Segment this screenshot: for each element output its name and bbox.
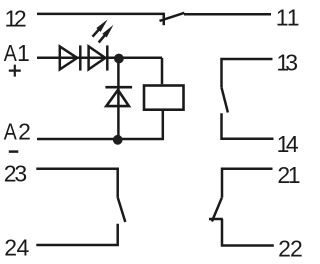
svg-text:3: 3: [14, 160, 27, 186]
wire 21: [222, 169, 273, 198]
label 12: [5, 5, 27, 31]
diode D1: [60, 46, 77, 69]
junction node coil+: [114, 54, 124, 64]
svg-text:3: 3: [285, 49, 298, 75]
label 13: [276, 49, 298, 75]
wire coil top vertical: [161, 58, 164, 84]
wire 14: [222, 113, 274, 139]
LED arrow 2: [97, 23, 116, 44]
label A2: [4, 119, 31, 145]
label 11: [276, 4, 300, 30]
contact NC 21-22 fixed tick: [209, 218, 223, 221]
plus sign (A1 polarity): [9, 65, 21, 77]
minus sign (A2 polarity): [9, 150, 18, 153]
svg-text:2: 2: [4, 234, 17, 260]
contact NO 13-14 arm: [222, 87, 228, 112]
wire diode branch vertical: [117, 58, 120, 140]
contact NC 12-11 fixed tick: [163, 13, 166, 26]
svg-text:1: 1: [17, 40, 30, 66]
label 14: [277, 131, 299, 157]
label 21: [277, 162, 300, 188]
LED D2 cathode bar: [106, 45, 109, 70]
svg-text:1: 1: [288, 162, 301, 188]
LED arrow 1: [90, 18, 110, 39]
svg-text:4: 4: [17, 234, 30, 260]
wire A2: [37, 138, 164, 141]
wire 12: [37, 13, 164, 16]
label 22: [278, 236, 303, 262]
junction node coil-: [113, 135, 123, 145]
wire 11: [184, 13, 271, 16]
wire 24: [36, 224, 117, 245]
svg-text:2: 2: [18, 119, 31, 145]
contact NC 21-22 arm: [212, 198, 222, 222]
svg-text:2: 2: [290, 236, 303, 262]
diode D3 triangle: [106, 90, 129, 106]
diode D1 cathode bar: [79, 45, 82, 70]
svg-text:1: 1: [287, 4, 300, 30]
label A1: [4, 40, 30, 66]
contact NC 12-11 arm: [160, 13, 185, 21]
label 24: [4, 234, 29, 260]
wire 13: [222, 59, 273, 87]
wire 22: [222, 219, 274, 246]
svg-text:A: A: [4, 41, 18, 67]
wire 23: [36, 169, 117, 198]
diode D3 cathode bar: [105, 86, 132, 89]
LED D2: [89, 46, 106, 69]
svg-text:2: 2: [14, 5, 27, 31]
relay coil K1: [144, 86, 184, 110]
svg-text:2: 2: [278, 236, 291, 262]
wire A1: [37, 57, 162, 60]
wire coil bottom vertical: [162, 111, 165, 139]
svg-text:A: A: [4, 119, 18, 145]
svg-text:4: 4: [286, 131, 299, 157]
label 23: [4, 160, 27, 186]
contact NO 23-24 arm: [118, 197, 126, 222]
